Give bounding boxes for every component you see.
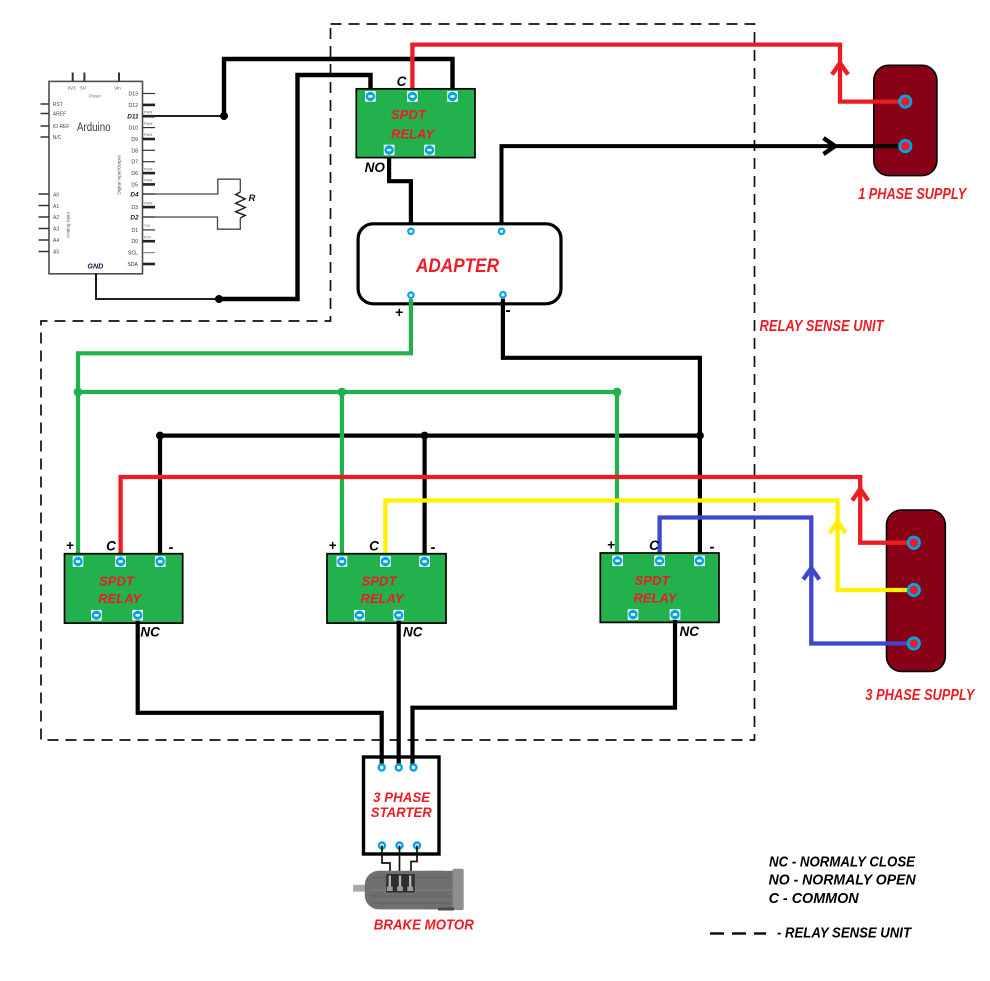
svg-text:NC: NC [403,625,423,640]
svg-text:RELAY: RELAY [391,127,435,142]
label 1 PHASE SUPPLY [858,186,967,203]
wire relay1 NO to adapter (black) [389,155,411,231]
label NC (relay K2) [140,625,160,640]
svg-text:D3: D3 [131,205,138,211]
wire relay K3 NC to starter (black) [397,621,401,768]
svg-text:PWM: PWM [144,167,152,171]
legend - RELAY SENSE UNIT [777,925,913,942]
svg-text:D6: D6 [131,171,138,177]
svg-text:D11: D11 [127,114,139,121]
label C (relay K2) [106,539,116,554]
starter terminals [378,763,422,849]
1 phase supply P1 [872,65,937,175]
svg-text:D12: D12 [128,103,138,109]
label C (relay1 common) [397,74,407,89]
svg-text:RX0: RX0 [144,235,151,239]
svg-text:AREF: AREF [53,112,66,118]
svg-text:Digital Input/Output: Digital Input/Output [117,155,122,195]
wire starter to motor (3 leads) [382,846,417,877]
svg-text:+: + [329,538,337,553]
wire relay K4 NC to starter (black) [413,620,676,768]
svg-text:NO - NORMALY OPEN: NO - NORMALY OPEN [769,872,917,889]
svg-text:- RELAY SENSE UNIT: - RELAY SENSE UNIT [777,925,913,942]
wire adapter + to relay row (green) [74,299,622,558]
wire relay4 C to 3 phase supply L3 (blue) [660,518,910,644]
svg-text:SPDT: SPDT [362,574,398,589]
Arduino board U1 [39,73,156,274]
svg-text:STARTER: STARTER [371,804,433,820]
label C (relay K4) [649,538,659,553]
svg-text:3 PHASE: 3 PHASE [373,789,431,805]
relay sense unit dashed boundary [41,24,755,740]
svg-text:D4: D4 [130,191,139,198]
label - (adapter) [505,302,510,319]
svg-text:SPDT: SPDT [391,107,427,122]
label + (relay K4) [607,537,615,552]
resistor R [155,179,256,229]
svg-text:+: + [607,537,615,552]
label + (relay K2) [66,538,74,553]
svg-text:3 PHASE SUPPLY: 3 PHASE SUPPLY [865,687,975,704]
svg-text:TX0: TX0 [144,224,150,228]
svg-text:D5: D5 [131,182,138,188]
wire relay2 C to 3 phase supply L1 (red) [121,477,910,558]
svg-text:RELAY: RELAY [361,591,405,606]
wire relay3 C to 3 phase supply L2 (yellow) [385,501,910,591]
wire adapter to 1 phase supply (black) [502,138,906,227]
3 phase supply P2 [885,510,945,671]
svg-text:-: - [505,302,510,319]
svg-text:-: - [431,539,436,556]
svg-text:A0: A0 [53,192,59,198]
svg-text:5V: 5V [80,86,87,91]
adapter U2 [358,224,561,304]
svg-text:D2: D2 [130,215,139,222]
svg-text:GND: GND [87,262,103,271]
svg-text:RELAY: RELAY [634,590,678,605]
svg-text:PWM: PWM [144,179,152,183]
svg-text:-: - [710,538,715,555]
svg-text:+: + [66,538,74,553]
label NC (relay K3) [403,625,423,640]
SPDT relay K4 [600,553,719,622]
label - (relay K4) [710,538,715,555]
svg-text:C: C [369,539,379,554]
svg-text:PWM: PWM [144,122,152,126]
svg-text:PWM: PWM [144,111,152,115]
svg-text:D13: D13 [128,92,138,98]
label 3 PHASE SUPPLY [865,687,975,704]
svg-text:Arduino: Arduino [77,122,111,134]
label - (relay K3) [431,539,436,556]
SPDT relay K1 [356,89,475,158]
svg-text:A1: A1 [53,204,59,210]
svg-text:C: C [397,74,407,89]
wire adapter - to relay row (black bus) [156,299,704,558]
svg-text:C: C [106,539,116,554]
wire relay1 C to 1 phase supply (red) [412,45,905,102]
svg-text:-: - [169,539,174,556]
svg-text:NC: NC [680,624,700,639]
svg-text:D1: D1 [131,228,138,234]
svg-text:+: + [395,304,403,320]
svg-text:3V3: 3V3 [67,86,76,91]
SPDT relay K3 [327,554,446,623]
label + (relay K3) [329,538,337,553]
svg-text:N/C: N/C [53,135,62,141]
svg-text:RELAY: RELAY [98,591,142,606]
svg-text:D7: D7 [131,160,138,166]
svg-text:Analog Input: Analog Input [66,211,71,238]
label BRAKE MOTOR [374,918,474,934]
svg-text:SDA: SDA [127,262,138,268]
svg-text:NC - NORMALY CLOSE: NC - NORMALY CLOSE [769,854,916,871]
svg-text:PWM: PWM [144,201,152,205]
label + (adapter) [395,304,403,320]
svg-text:C - COMMON: C - COMMON [769,890,860,907]
svg-text:R: R [249,193,256,204]
svg-text:1 PHASE SUPPLY: 1 PHASE SUPPLY [858,186,967,203]
wire GND to relay1 (black) [96,75,371,303]
svg-text:BRAKE MOTOR: BRAKE MOTOR [374,918,474,934]
3 phase starter M1 box [364,757,440,854]
label NO (relay1) [365,160,386,175]
label NC (relay K4) [680,624,700,639]
svg-text:A5: A5 [53,249,59,255]
svg-text:D0: D0 [131,239,138,245]
wire relay K2 NC to starter (black) [138,621,382,768]
wire D11 to relay1 (black) [155,59,453,120]
svg-text:RST: RST [53,102,63,108]
svg-text:Vin: Vin [114,86,121,91]
SPDT relay K2 [65,554,183,623]
svg-text:Power: Power [89,94,102,99]
svg-text:RELAY SENSE UNIT: RELAY SENSE UNIT [760,318,885,335]
brake motor M2 [353,869,464,911]
svg-text:NC: NC [140,625,160,640]
svg-text:D8: D8 [131,148,138,154]
svg-text:A4: A4 [53,238,59,244]
svg-text:NO: NO [365,160,386,175]
legend NC - NORMALY CLOSE [769,854,916,871]
svg-text:IO REF: IO REF [53,124,70,130]
label - (relay K2) [169,539,174,556]
svg-text:ADAPTER: ADAPTER [415,256,499,277]
svg-text:A3: A3 [53,227,59,233]
legend NO - NORMALY OPEN [769,872,917,889]
legend dashed line sample [710,932,766,935]
svg-text:SPDT: SPDT [99,574,135,589]
svg-text:SCL: SCL [128,251,138,257]
label C (relay K3) [369,539,379,554]
svg-text:D9: D9 [131,137,138,143]
svg-text:SPDT: SPDT [635,573,671,588]
label RELAY SENSE UNIT (red) [760,318,885,335]
svg-text:C: C [649,538,659,553]
svg-text:D10: D10 [128,126,138,132]
svg-text:PWM: PWM [144,133,152,137]
svg-text:A2: A2 [53,215,59,221]
legend C - COMMON [769,890,860,907]
